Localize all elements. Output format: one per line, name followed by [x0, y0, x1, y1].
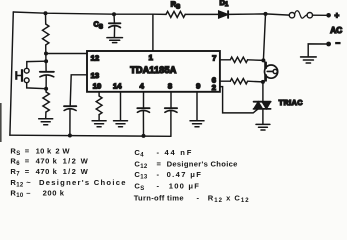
node: motor branch junction [264, 12, 268, 16]
capacitor C12 curved plate [40, 75, 54, 77]
capacitor C13 curved plate [64, 109, 76, 111]
wire pin 10 resistor to ground [98, 115, 100, 121]
resistor R6 (pin 7 to motor) [230, 57, 247, 62]
node: top rail / R12 junction [44, 11, 48, 15]
svg-text:10: 10 [93, 82, 101, 91]
wire push button top branch [27, 61, 46, 68]
svg-text:+: + [335, 11, 340, 20]
wire pin 8 lead [170, 92, 172, 108]
triac bottom bar [254, 108, 271, 110]
ground below pin 10 [92, 121, 106, 127]
wire pin 4 lead [143, 92, 145, 108]
capacitor C8 top plate [165, 107, 177, 109]
text block right column [134, 148, 250, 204]
wire pin 7 stub [220, 59, 230, 61]
wire CS to ground [113, 26, 115, 37]
node: push button top junction [44, 59, 48, 63]
motor M brush bottom [264, 74, 267, 81]
svg-text:AC: AC [330, 26, 342, 35]
resistor on pin 10 [96, 96, 102, 115]
wire to pin 12 [46, 53, 87, 55]
wire R10 to ground [45, 112, 47, 119]
motor M inner lead [267, 70, 273, 72]
node: top rail / CS junction [112, 12, 116, 16]
node: pin 12 junction [44, 52, 48, 56]
wire C4 to bottom rail [142, 111, 144, 136]
node: pin 7 resistor junction [261, 58, 265, 62]
wire R12 top lead [45, 13, 47, 24]
wire pin 14 to ground [120, 92, 122, 120]
ground below pin 14 [114, 121, 128, 127]
wire left rail [10, 12, 13, 135]
wire CS top lead [113, 14, 115, 22]
motor M inner circle [273, 69, 277, 73]
svg-text:9: 9 [196, 82, 200, 91]
resistor RS [166, 11, 185, 17]
capacitor CS top plate [109, 22, 121, 24]
motor M brush top [263, 60, 265, 62]
wire minus terminal to ground [308, 44, 326, 57]
push button S1 stem [17, 75, 21, 77]
capacitor C4 top plate [137, 107, 149, 109]
wire pin 6 stub [220, 80, 230, 82]
diode D1 [219, 11, 228, 18]
fuse element squiggle [295, 11, 307, 18]
svg-text:–: – [336, 38, 341, 47]
node: C13 bottom rail junction [68, 134, 72, 138]
fuse right terminal [307, 13, 312, 18]
triac top bar [254, 101, 271, 103]
push button S1 contact bottom [24, 78, 29, 83]
motor M body [265, 65, 278, 78]
ground below CS [107, 38, 123, 43]
resistor R12 [43, 24, 49, 45]
svg-text:14: 14 [113, 82, 122, 91]
wire pin 2 gate lead [220, 87, 258, 113]
wire R6 to junction [248, 59, 264, 62]
wire fuse to plus terminal [313, 14, 327, 16]
push button S1 actuator bar [21, 69, 23, 82]
terminal AC plus [326, 13, 331, 18]
wire D1 to fuse junction [229, 14, 290, 15]
push button S1 contact top [24, 68, 29, 73]
wire triac to ground [262, 109, 264, 124]
capacitor C4 curved plate [137, 110, 149, 112]
wire pin 13 branch [70, 75, 87, 106]
IC U1 TDA1185A body [87, 51, 220, 92]
resistor R10 [43, 92, 49, 112]
triac left triangle [254, 102, 263, 109]
svg-text:13: 13 [91, 71, 99, 80]
svg-text:TRIAC: TRIAC [279, 100, 303, 107]
capacitor C8 curved plate [165, 110, 177, 112]
text block left column [10, 147, 126, 200]
svg-text:7: 7 [212, 54, 216, 63]
wire pin 9 to ground [196, 92, 198, 120]
resistor R7 (pin 6 to motor) [230, 79, 247, 84]
svg-text:TDA1185A: TDA1185A [130, 65, 176, 75]
scan artifact left edge [0, 103, 2, 142]
node: C4 bottom rail junction [142, 134, 146, 138]
wire C8 to bottom rail [170, 111, 172, 137]
triac right triangle [262, 102, 270, 109]
push button S1 handle [15, 71, 17, 80]
wire push button bottom branch [27, 83, 46, 89]
wire bottom rail [10, 135, 171, 136]
node: pin 6 resistor junction [261, 80, 265, 84]
wire R7 to junction [248, 80, 263, 83]
svg-text:2: 2 [212, 83, 216, 92]
wire motor branch vertical upper [263, 14, 265, 61]
wire motor to triac [262, 82, 264, 101]
ground below R10 [39, 119, 53, 125]
svg-text:12: 12 [91, 54, 99, 63]
wire top rail left section [13, 12, 166, 14]
node: push button bottom junction [44, 87, 48, 91]
ground below pin 9 [190, 121, 204, 127]
wire RS to D1 [185, 13, 219, 15]
ground at AC minus [301, 57, 317, 63]
terminal AC minus [326, 42, 331, 47]
wire pin 10 lead [98, 92, 100, 96]
wire R12 bottom lead to C12 [45, 45, 47, 72]
svg-text:8: 8 [168, 82, 172, 91]
capacitor C13 top plate [64, 105, 76, 107]
wire C12 to R10 [45, 75, 47, 92]
wire C13 to bottom rail [69, 109, 71, 136]
wire pin 1 to top rail [152, 14, 154, 51]
capacitor C12 top plate [40, 71, 54, 73]
capacitor CS curved plate [109, 26, 121, 28]
fuse left terminal [289, 13, 294, 18]
ground below triac [256, 124, 270, 130]
